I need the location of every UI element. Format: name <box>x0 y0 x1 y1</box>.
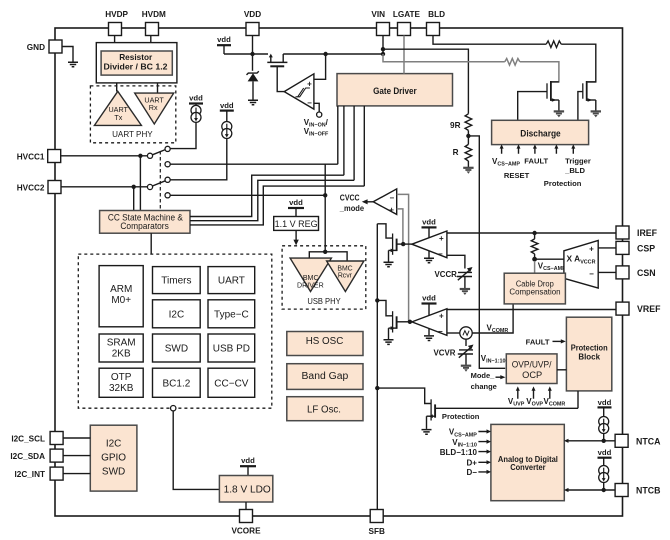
svg-text:FAULT: FAULT <box>524 156 548 165</box>
VCCR programmable reference <box>457 272 472 276</box>
current source Rp CC2 <box>222 122 232 139</box>
block Discharge <box>492 120 589 144</box>
wire LGATE to gate driver <box>403 36 405 74</box>
svg-text:HS OSC: HS OSC <box>306 336 344 347</box>
UART PHY dashed box <box>90 86 175 143</box>
wire comparator - input <box>314 103 319 112</box>
svg-text:SWD: SWD <box>102 467 125 478</box>
wire U3 + to IREF <box>447 232 616 234</box>
svg-text:Band Gap: Band Gap <box>302 371 349 382</box>
wire CC-SM to CPU <box>150 233 152 254</box>
ground (VCVR) <box>461 366 471 372</box>
svg-text:change: change <box>471 382 497 391</box>
block HS OSC <box>287 332 363 356</box>
current source Rp CC1 <box>191 105 201 122</box>
svg-text:VCS−AMP: VCS−AMP <box>538 261 566 272</box>
svg-text:Comparators: Comparators <box>120 221 169 231</box>
wire gate driver B <box>343 106 345 175</box>
wire gate driver C <box>353 106 355 180</box>
wire gate driver A <box>337 106 339 164</box>
CVCC_mode output arrow <box>367 201 373 203</box>
svg-text:vdd: vdd <box>598 448 612 457</box>
block 1.1 V REG <box>274 217 319 231</box>
block Band Gap <box>287 364 363 390</box>
svg-text:Mode_: Mode_ <box>471 371 496 380</box>
wire GND to ground <box>62 47 73 62</box>
ground (U4) <box>428 329 430 336</box>
switch throw 1 <box>165 146 170 151</box>
svg-text:VDD: VDD <box>244 10 261 19</box>
wire node to op-amp apex <box>403 243 412 245</box>
pin VREF <box>616 302 629 315</box>
zener diode (VDD clamp) <box>247 71 259 75</box>
svg-text:Compensation: Compensation <box>509 288 560 297</box>
node VDD-rail <box>250 52 254 56</box>
svg-text:NTCB: NTCB <box>636 486 660 496</box>
switch pole contact CC2 <box>147 184 152 189</box>
svg-text:vdd: vdd <box>220 101 234 110</box>
node CC loop output <box>401 242 405 246</box>
svg-text:VCCR: VCCR <box>435 270 458 279</box>
wire divider to UART Rx <box>157 83 159 93</box>
wire NTCB to ADC <box>568 489 616 491</box>
svg-text:M0+: M0+ <box>111 295 131 306</box>
svg-text:OTP: OTP <box>111 372 132 383</box>
wire VIN to discharge FET1 (gray) <box>383 54 505 62</box>
svg-text:+: + <box>439 234 444 243</box>
ground (FET2) <box>591 111 601 117</box>
svg-text:HVCC1: HVCC1 <box>17 152 45 161</box>
pin HVCC1 <box>48 150 61 163</box>
wire comparator + input <box>314 54 326 79</box>
svg-text:Tx: Tx <box>114 113 122 122</box>
wire NMOS2 gate tap <box>375 298 379 302</box>
wire I2C_INT <box>63 473 90 475</box>
svg-text:I2C: I2C <box>106 439 122 450</box>
pin VIN <box>377 23 390 36</box>
wire OVP to protection block <box>557 369 566 371</box>
wire LDO to VCORE <box>245 502 247 510</box>
svg-text:Type−C: Type−C <box>214 309 249 320</box>
wire HVCC2 to switch pole <box>61 186 147 188</box>
block Analog to Digital Converter <box>491 424 564 500</box>
pin NTCA <box>615 434 628 447</box>
switch blade CC1 <box>152 150 165 155</box>
wire node to BMC driver <box>309 252 325 258</box>
svg-text:OCP: OCP <box>522 370 542 380</box>
block SRAM 2KB <box>99 334 143 362</box>
wire VIN to 9R divider <box>383 49 468 114</box>
svg-text:vdd: vdd <box>422 293 436 302</box>
block LF Osc. <box>287 397 363 421</box>
svg-text:vdd: vdd <box>189 94 203 103</box>
pin NTCB <box>615 484 628 497</box>
svg-text:Trigger: Trigger <box>565 157 591 166</box>
svg-text:−: − <box>438 249 443 258</box>
block I2C GPIO SWD <box>90 425 137 491</box>
pin CSN <box>616 266 629 279</box>
block SWD <box>153 334 201 362</box>
block CC-CV <box>208 368 255 397</box>
node CV loop output <box>408 320 412 324</box>
wire CVCC + input (gray) <box>397 209 403 244</box>
CPU subsystem dashed box <box>78 254 271 408</box>
pin HVDM <box>146 23 159 36</box>
wire throw4 to BMC node <box>170 194 325 196</box>
ground (GND pin) <box>68 62 78 67</box>
svg-text:2KB: 2KB <box>112 349 131 360</box>
ground (zener) <box>248 100 258 105</box>
block Timers <box>153 267 201 294</box>
node NTCB <box>602 488 606 492</box>
svg-text:VUVP: VUVP <box>508 397 525 408</box>
svg-text:Protection: Protection <box>571 344 608 353</box>
wire CC1 source to switch <box>170 123 196 149</box>
pin BLD <box>427 23 440 36</box>
wire CC2 source to switch <box>170 139 227 180</box>
svg-text:SFB: SFB <box>369 527 385 536</box>
ground (Q5) <box>384 340 394 345</box>
svg-text:I2C: I2C <box>169 309 185 320</box>
svg-text:SWD: SWD <box>165 344 188 355</box>
svg-text:VREF: VREF <box>637 304 661 314</box>
svg-text:vdd: vdd <box>598 398 612 407</box>
wire CVCC - input (gray) <box>397 194 409 321</box>
svg-text:USB PHY: USB PHY <box>307 297 341 306</box>
svg-text:9R: 9R <box>450 121 461 130</box>
current source (NTCA) <box>599 417 609 434</box>
modulator circle <box>460 327 472 339</box>
svg-text:1.1 V REG: 1.1 V REG <box>275 219 318 229</box>
wire comparator output to Q1 gate <box>277 66 284 91</box>
USB PHY dashed box <box>282 246 366 309</box>
svg-text:_mode: _mode <box>339 204 365 213</box>
svg-text:I2C_SDA: I2C_SDA <box>10 452 45 461</box>
svg-text:Block: Block <box>578 353 600 362</box>
svg-text:DRIVER: DRIVER <box>297 281 324 289</box>
svg-text:−: − <box>307 98 312 107</box>
wire I2C_SDA <box>63 455 90 457</box>
pin I2C_SDA <box>50 449 63 462</box>
svg-text:CSP: CSP <box>637 243 655 253</box>
transistor Q2 discharge FET1 <box>550 81 552 101</box>
block Cable Drop Compensation <box>504 273 565 304</box>
switch throw 2 <box>165 162 170 167</box>
wire HVDP to divider <box>114 36 116 43</box>
svg-text:Protection: Protection <box>442 412 480 421</box>
pin HVDP <box>109 23 122 36</box>
block Gate Driver <box>337 74 453 106</box>
svg-text:CVCC: CVCC <box>340 194 360 203</box>
svg-text:D−: D− <box>466 468 477 477</box>
svg-text:BC1.2: BC1.2 <box>163 379 191 390</box>
node HVCC2 <box>132 185 136 189</box>
wire vdd rail right segment <box>283 53 383 55</box>
node CPU power <box>171 406 176 411</box>
wire CC net down to USB PHY <box>324 164 326 252</box>
transistor Q3 discharge FET2 <box>586 81 588 101</box>
VCVR programmable reference <box>465 339 467 346</box>
pin VCORE <box>240 510 253 523</box>
svg-text:VCOMR: VCOMR <box>544 397 566 408</box>
block OTP 32KB <box>99 368 143 397</box>
ADC input arrows <box>478 432 487 472</box>
svg-text:Rcvr: Rcvr <box>338 272 353 279</box>
wire SFB to protection FET gate <box>377 388 430 403</box>
svg-text:HVDP: HVDP <box>105 10 128 19</box>
node BMC input <box>323 250 327 254</box>
BMC DRIVER buffer <box>290 258 331 291</box>
svg-text:VIN−1:10: VIN−1:10 <box>481 354 506 365</box>
pin CSP <box>616 241 629 254</box>
svg-text:CSN: CSN <box>637 268 656 278</box>
op-amp U2 CVCC mode comparator <box>373 189 397 215</box>
op-amp U4 VCVR buffer <box>412 309 447 336</box>
svg-text:BLD: BLD <box>428 10 445 19</box>
svg-text:Rx: Rx <box>149 103 158 112</box>
wire CC-SM out1 to gate driver B <box>190 175 344 216</box>
wire CSP to X AVCCR <box>598 247 616 249</box>
svg-text:vdd: vdd <box>241 456 255 465</box>
wire VIN-1:10 to OVP <box>468 136 505 368</box>
node SFB protection tap <box>375 386 379 390</box>
svg-text:1.8 V LDO: 1.8 V LDO <box>224 485 271 496</box>
svg-text:UART PHY: UART PHY <box>112 130 153 139</box>
wire BLD to discharge FET2 <box>433 36 546 45</box>
svg-text:VCVR: VCVR <box>434 349 456 358</box>
ground (Q4) <box>384 262 394 267</box>
wire NTCA to ADC <box>568 440 616 442</box>
svg-text:LGATE: LGATE <box>393 10 421 19</box>
block CC State Machine & Comparators <box>100 211 190 234</box>
resistor (VIN bleed, gray) <box>505 59 520 66</box>
terminal VIN-ON/OFF <box>317 112 322 117</box>
node 9R/R divider <box>466 134 470 138</box>
wire U4 - to modulator <box>447 332 460 334</box>
svg-text:I2C_SCL: I2C_SCL <box>11 434 45 443</box>
wire SFB riser <box>376 224 378 510</box>
current source (NTCB) <box>599 466 609 483</box>
wire CC-SM out2 to gate driver C <box>190 180 354 220</box>
svg-text:VOVP: VOVP <box>526 397 543 408</box>
svg-text:D+: D+ <box>466 459 477 468</box>
block BC1.2 <box>153 368 201 397</box>
pin SFB <box>370 510 383 523</box>
svg-text:+: + <box>389 205 394 214</box>
resistor 9R <box>465 114 472 131</box>
resistor R <box>465 144 472 161</box>
node VIN 9R feed <box>381 47 385 51</box>
svg-text:Gate Driver: Gate Driver <box>373 86 417 96</box>
wire VCS-AMP to X AVCCR <box>535 258 564 260</box>
svg-text:vdd: vdd <box>289 198 303 207</box>
svg-text:vdd: vdd <box>422 217 436 226</box>
node VCS-AMP top <box>532 231 536 235</box>
svg-text:ARM: ARM <box>110 284 132 295</box>
wire HVCC1 node to CC state machine <box>139 156 141 211</box>
block Protection Block <box>566 317 611 391</box>
transistor Q6 protection FET <box>430 399 432 420</box>
transistor Q1 PMOS pass <box>267 61 287 63</box>
switch gang dashed link <box>159 151 161 211</box>
UART Rx buffer <box>135 93 174 124</box>
svg-text:I2C_INT: I2C_INT <box>15 470 45 479</box>
svg-text:R: R <box>453 148 459 157</box>
resistor divider outer box <box>96 43 177 83</box>
discharge input arrows <box>502 148 574 154</box>
svg-text:IREF: IREF <box>637 228 658 238</box>
svg-text:Converter: Converter <box>510 462 546 472</box>
wire U4 + to VREF <box>447 309 616 311</box>
svg-text:−: − <box>589 269 594 278</box>
ground (VCCR) <box>460 289 470 295</box>
svg-text:−: − <box>389 194 394 203</box>
wire vdd rail left segment <box>224 53 268 55</box>
svg-text:HVCC2: HVCC2 <box>17 183 45 192</box>
ground (U3) <box>428 251 430 258</box>
svg-text:VCS−AMP: VCS−AMP <box>492 157 520 168</box>
op-amp U1 hysteresis comparator <box>284 74 314 109</box>
block UART <box>208 267 255 294</box>
wire VIN pin down <box>382 36 384 55</box>
block Type-C <box>208 300 255 328</box>
svg-text:+: + <box>589 244 594 253</box>
wire I2C_SCL <box>63 437 90 439</box>
ground (R divider) <box>463 168 473 174</box>
switch blade CC2 <box>152 181 165 186</box>
svg-text:+: + <box>307 79 312 88</box>
wire CSN to X AVCCR <box>598 271 616 273</box>
wire U3 - to VCCR <box>447 255 465 268</box>
block OVP/UVP/OCP <box>506 354 557 384</box>
ground (Q6) <box>422 430 432 435</box>
svg-text:LF Osc.: LF Osc. <box>307 404 341 415</box>
wire CC-SM out3 to gate driver D <box>190 186 364 225</box>
UART Tx buffer <box>94 91 141 125</box>
block 1.8 V LDO <box>219 476 272 503</box>
svg-text:VCORE: VCORE <box>231 527 261 536</box>
wire SFB to NMOS1 gate <box>377 224 392 238</box>
wire divider to UART Tx <box>116 83 118 92</box>
svg-text:VIN: VIN <box>371 10 385 19</box>
wire modulator to cable drop comp <box>472 304 513 333</box>
wire HVCC1 to switch pole <box>61 155 147 157</box>
svg-text:32KB: 32KB <box>109 383 134 394</box>
switch pole contact CC1 <box>147 153 152 158</box>
svg-text:+: + <box>439 312 444 321</box>
svg-text:vdd: vdd <box>217 35 231 44</box>
node HVCC1 <box>138 154 142 158</box>
wire throw2 to gate driver A <box>170 163 338 165</box>
svg-text:Protection: Protection <box>544 179 582 188</box>
block I2C <box>153 300 201 328</box>
pin I2C_SCL <box>50 432 63 445</box>
svg-text:Divider / BC 1.2: Divider / BC 1.2 <box>104 61 168 71</box>
node NTCA <box>602 439 606 443</box>
wire gate driver D <box>363 106 365 186</box>
Mode_change arrow <box>496 376 502 378</box>
wire HVCC2 node to CC state machine <box>133 187 135 211</box>
wire VDD pin down <box>252 36 254 71</box>
FAULT arrow <box>553 340 562 342</box>
wire discharge to FET1 gate <box>518 92 547 121</box>
svg-text:Discharge: Discharge <box>520 129 560 139</box>
svg-text:UART: UART <box>218 276 245 287</box>
wire discharge to FET2 gate <box>578 92 583 121</box>
node VCS-AMP <box>532 257 537 262</box>
svg-text:HVDM: HVDM <box>142 10 166 19</box>
svg-text:RESET: RESET <box>504 171 530 180</box>
node throw4 junction <box>323 193 327 197</box>
op-amp U3 VCCR buffer <box>412 231 447 258</box>
pin VDD <box>246 23 259 36</box>
wire 1.1V REG arrow to USB PHY <box>295 230 297 240</box>
wire VCS-AMP to cable drop (gray) <box>534 261 536 273</box>
amplifier X AVCCR <box>564 240 598 288</box>
node VIN rail <box>381 52 385 56</box>
wire CPU to LDO <box>173 411 219 490</box>
chip boundary <box>55 28 623 516</box>
pin GND <box>49 40 62 53</box>
node comparator tap <box>323 52 327 56</box>
transistor Q5 NMOS (CV loop) <box>392 311 394 332</box>
svg-text:−: − <box>438 327 443 336</box>
pin HVCC2 <box>48 181 61 194</box>
resistor (BLD bleed) <box>546 41 561 48</box>
svg-text:GND: GND <box>27 43 45 52</box>
svg-text:SRAM: SRAM <box>107 338 136 349</box>
block ARM M0+ <box>99 266 143 327</box>
ground (FET1) <box>554 111 564 117</box>
svg-text:USB PD: USB PD <box>213 344 250 355</box>
switch throw 4 <box>165 193 170 198</box>
block USB PD <box>208 334 255 362</box>
OVP input arrows <box>518 390 550 399</box>
BMC Rcvr buffer <box>327 261 364 292</box>
svg-text:CC−CV: CC−CV <box>214 379 249 390</box>
transistor Q4 NMOS (CC loop) <box>392 234 394 255</box>
svg-text:FAULT: FAULT <box>526 338 550 347</box>
wire node to BMC receiver <box>325 252 347 261</box>
wire HVDM to divider <box>150 36 152 43</box>
svg-text:Timers: Timers <box>161 276 191 287</box>
svg-text:GPIO: GPIO <box>101 453 126 464</box>
svg-text:NTCA: NTCA <box>636 436 661 446</box>
svg-text:VCS−AMP: VCS−AMP <box>449 428 477 439</box>
svg-text:_BLD: _BLD <box>564 166 585 175</box>
svg-text:OVP/UVP/: OVP/UVP/ <box>512 359 552 369</box>
pin I2C_INT <box>50 467 63 480</box>
resistor (VCS-AMP) <box>534 233 536 239</box>
svg-text:VIN−1:10: VIN−1:10 <box>452 438 477 449</box>
wire protection block down <box>577 391 579 408</box>
block Resistor Divider / BC 1.2 <box>101 51 172 75</box>
svg-text:BLD−1:10: BLD−1:10 <box>440 448 478 457</box>
pin LGATE <box>398 23 411 36</box>
pin IREF <box>616 226 629 239</box>
switch throw 3 <box>165 177 170 182</box>
